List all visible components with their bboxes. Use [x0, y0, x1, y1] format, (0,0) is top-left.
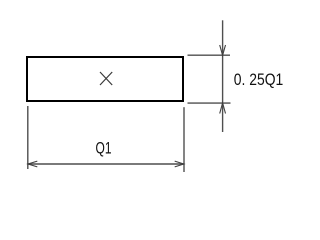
vertical dimension line [222, 20, 224, 132]
left extension line [27, 106, 29, 169]
bottom extension line [188, 102, 231, 104]
svg-text:0. 25Q1: 0. 25Q1 [234, 71, 283, 89]
svg-text:Q1: Q1 [96, 140, 112, 158]
arrowhead down at top extension [220, 45, 226, 55]
rectangle body outline [27, 57, 183, 101]
arrowhead up at bottom extension [220, 103, 226, 114]
horizontal dimension line [28, 163, 184, 165]
top extension line [188, 54, 231, 56]
right extension line [183, 107, 185, 172]
arrowhead left [28, 161, 37, 167]
center mark X [100, 72, 112, 85]
arrowhead right [175, 161, 184, 167]
